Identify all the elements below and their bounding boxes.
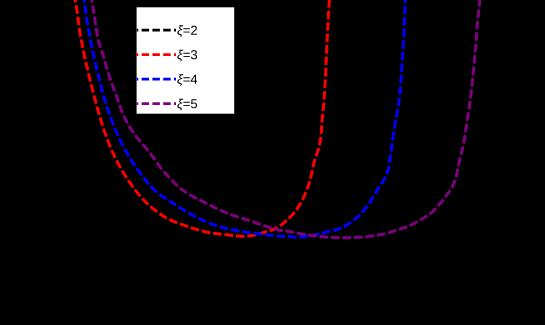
legend sample xi=4 (blue dashed) [137, 78, 176, 81]
legend sample xi=3 (red dashed) [137, 53, 176, 56]
curve xi=3 (red dashed) [74, 0, 329, 236]
legend label xi=5 [177, 99, 197, 111]
legend label xi=2 [177, 25, 197, 37]
curve xi=4 (blue dashed) [84, 0, 406, 237]
legend label xi=3 [177, 50, 197, 62]
legend sample xi=2 (black dashed) [137, 29, 176, 32]
legend box [137, 7, 235, 113]
legend label xi=4 [177, 74, 197, 86]
curve xi=5 (purple dashed) [91, 0, 480, 238]
legend sample xi=5 (purple dashed) [137, 102, 176, 105]
